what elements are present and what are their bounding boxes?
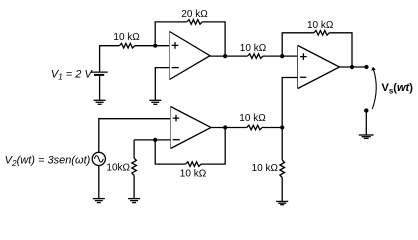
ground under R5 <box>128 199 140 203</box>
source V2 circle <box>92 152 105 165</box>
svg-text:10 kΩ: 10 kΩ <box>180 169 207 180</box>
terminal upper Vs <box>364 65 368 69</box>
wire battery to ground <box>99 75 101 100</box>
op-amp U1 body <box>170 32 211 80</box>
op-amp U3 left edge <box>297 46 299 89</box>
op-amp U2 left edge <box>170 107 172 149</box>
ground under battery <box>94 100 106 104</box>
junction node B at U2 minus input <box>153 138 157 142</box>
svg-text:10 kΩ: 10 kΩ <box>252 163 279 174</box>
wire V2 top to U2 + input <box>99 119 171 153</box>
op-amp U3 body <box>298 46 340 89</box>
wire U3 minus input <box>282 78 298 128</box>
wire R6 up to U2 output <box>201 128 225 165</box>
junction node U3 output <box>350 65 354 69</box>
wire U2 minus input rail <box>134 139 170 141</box>
wire node C up to R4 rail <box>282 33 314 56</box>
wire R4 to U3 output vertical <box>329 33 352 67</box>
resistor R5 10kOhm vertical <box>132 158 137 176</box>
resistor R1 10 kOhm horizontal <box>119 43 134 48</box>
op-amp U1 minus sign <box>172 67 179 69</box>
ground under R8 <box>276 201 288 204</box>
resistor R8 10 kOhm vertical <box>280 160 285 178</box>
svg-text:10kΩ: 10kΩ <box>106 162 130 173</box>
wire U3 output to terminal <box>340 66 367 68</box>
junction node A at R1/U1 <box>153 44 157 48</box>
battery V1 long plate <box>91 71 108 73</box>
resistor R2 20 kOhm horizontal <box>187 20 202 25</box>
resistor R3 10 kOhm horizontal <box>248 54 263 59</box>
resistor R7 10 kOhm horizontal <box>247 125 262 130</box>
ground at output terminal <box>359 135 374 138</box>
junction node C at U3 + input <box>280 54 284 58</box>
op-amp U2 minus sign <box>173 139 180 141</box>
resistor R4 10 kOhm horizontal feedback <box>314 31 329 36</box>
wire V2 bottom to ground <box>98 166 100 199</box>
svg-text:20 kΩ: 20 kΩ <box>181 9 208 20</box>
svg-text:V1 = 2 V: V1 = 2 V <box>51 68 94 81</box>
op-amp U1 left edge <box>169 32 171 80</box>
svg-text:10 kΩ: 10 kΩ <box>240 43 267 54</box>
junction node U1 output <box>223 54 227 58</box>
op-amp U1 plus sign <box>172 42 179 49</box>
wire U2 output to R7 <box>211 127 247 129</box>
voltage arc arrow Vs <box>372 69 376 109</box>
wire 20k to U1 output vertical <box>202 22 225 56</box>
wire lower terminal to ground <box>365 111 367 135</box>
ground under V2 <box>93 199 105 203</box>
wire feedback left vertical from node A <box>155 22 187 46</box>
svg-text:10 kΩ: 10 kΩ <box>113 32 140 43</box>
wire U1 minus input to ground <box>155 68 169 101</box>
wire V1 top to R1 <box>100 46 120 72</box>
wire to vertical resistor R5 <box>133 140 135 158</box>
arrowhead of Vs arc <box>371 67 376 71</box>
svg-text:Vs(wt): Vs(wt) <box>382 82 414 96</box>
wire U1 output to R3 <box>210 55 248 57</box>
wire R5 to ground <box>133 176 135 199</box>
svg-text:10 kΩ: 10 kΩ <box>307 20 334 31</box>
junction node U2 output <box>223 125 227 129</box>
op-amp U2 plus sign <box>173 115 180 122</box>
svg-text:10 kΩ: 10 kΩ <box>239 113 266 124</box>
resistor R6 10 kOhm horizontal feedback <box>186 162 201 167</box>
junction node D <box>280 125 284 129</box>
battery V1 short plate <box>94 74 104 76</box>
wire feedback node B down <box>155 140 185 164</box>
wire R8 to ground <box>281 178 283 202</box>
op-amp U3 plus sign <box>300 53 307 60</box>
wire node D down to R8 <box>281 128 283 161</box>
op-amp U2 body <box>171 107 212 149</box>
sine wave inside V2 <box>94 156 103 162</box>
wire R7 to node D <box>262 127 282 129</box>
op-amp U3 minus sign <box>300 76 306 78</box>
ground at U1 minus input <box>149 100 161 104</box>
terminal lower Vs <box>364 108 368 112</box>
svg-text:V2(wt) = 3sen(ωt): V2(wt) = 3sen(ωt) <box>5 155 91 168</box>
wire R3 to U3 + input <box>263 55 298 57</box>
wire R1 to op-amp U1 + input <box>135 45 170 47</box>
